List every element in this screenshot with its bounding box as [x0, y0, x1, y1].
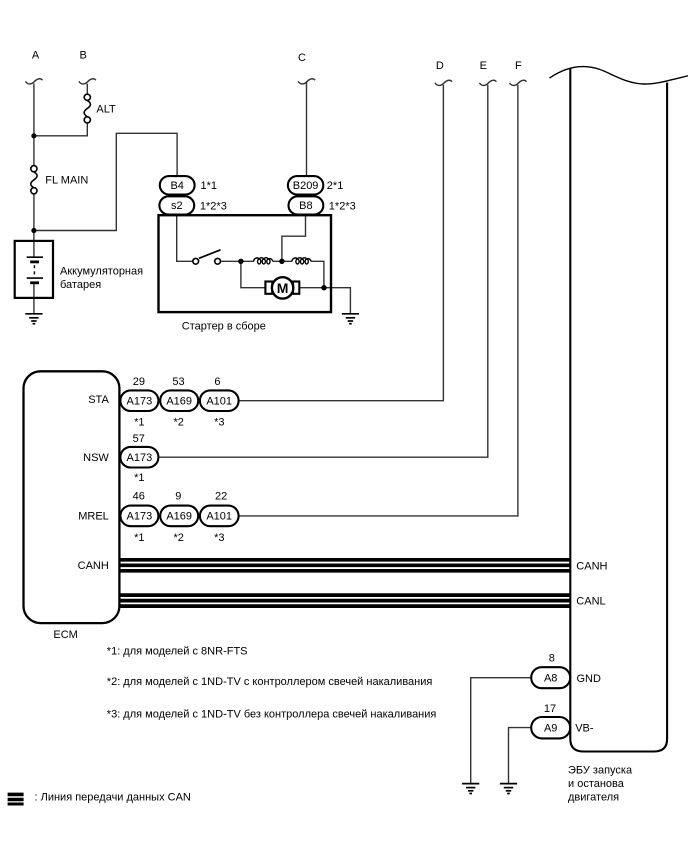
- wire line A below FL MAIN to battery: [33, 194, 35, 257]
- svg-text:*2: *2: [173, 416, 183, 428]
- ground A8: [462, 784, 479, 794]
- svg-text:A9: A9: [544, 723, 557, 735]
- svg-text:M: M: [277, 280, 289, 296]
- CAN bus CANH: [119, 560, 570, 571]
- svg-text:B8: B8: [299, 200, 312, 212]
- svg-text:*1: *1: [134, 472, 144, 484]
- svg-text:B4: B4: [170, 180, 183, 192]
- wire switch to coil1: [221, 260, 254, 262]
- svg-text:двигателя: двигателя: [568, 792, 619, 804]
- svg-text:ALT: ALT: [96, 104, 116, 116]
- junction switch-coil: [238, 259, 243, 264]
- wire line A vertical top: [33, 84, 35, 166]
- svg-text:MREL: MREL: [78, 511, 109, 523]
- break symbol D: [435, 80, 452, 85]
- svg-text:CANL: CANL: [576, 596, 605, 608]
- svg-text:8: 8: [549, 653, 555, 665]
- svg-text:F: F: [515, 60, 522, 72]
- connector A101 (MREL): [200, 506, 239, 527]
- svg-text:A169: A169: [166, 396, 192, 408]
- wire battery to ground: [33, 284, 35, 314]
- svg-text:s2: s2: [171, 200, 183, 212]
- CAN bus CANL: [119, 595, 570, 606]
- svg-text:A: A: [32, 50, 40, 62]
- ECM box: [24, 371, 120, 623]
- connector A8: [531, 667, 570, 688]
- wire battery junction to B4 connector: [34, 133, 177, 230]
- break symbol C: [298, 79, 315, 84]
- svg-text:D: D: [436, 60, 444, 72]
- wire MREL row to line F: [239, 85, 518, 516]
- svg-text:A8: A8: [544, 673, 557, 685]
- svg-text:1*2*3: 1*2*3: [329, 200, 356, 212]
- junction coil node: [279, 259, 284, 264]
- connector A9: [531, 717, 570, 738]
- connector A101 (STA): [200, 390, 239, 411]
- break symbol E: [479, 80, 496, 85]
- fusible link ALT: [84, 94, 90, 123]
- ground A9: [500, 784, 517, 794]
- break symbol A: [26, 79, 43, 84]
- svg-text:STA: STA: [88, 394, 109, 406]
- svg-text:FL MAIN: FL MAIN: [45, 174, 88, 186]
- wire A9 to ground: [509, 728, 532, 784]
- connector B4: [160, 176, 195, 194]
- svg-text:A101: A101: [206, 511, 232, 523]
- svg-text:B: B: [80, 50, 87, 62]
- wire motor right brush to starter ground: [300, 288, 351, 314]
- svg-text:*1: для моделей с 8NR-FTS: *1: для моделей с 8NR-FTS: [107, 645, 248, 657]
- svg-text:*2: *2: [173, 532, 183, 544]
- svg-text:CANH: CANH: [78, 560, 109, 572]
- svg-text:*1: *1: [134, 532, 144, 544]
- svg-text:и останова: и останова: [568, 778, 625, 790]
- ground starter: [342, 314, 359, 324]
- switch contact right: [215, 258, 221, 264]
- connector B209: [288, 176, 323, 194]
- coil L2: [292, 258, 311, 264]
- wire B8 lead: [282, 215, 306, 261]
- svg-text:CANH: CANH: [576, 560, 607, 572]
- motor M1: [272, 277, 293, 298]
- connector B8: [289, 196, 324, 214]
- wire junction down to motor left brush: [241, 261, 266, 287]
- svg-text:: Линия передачи данных CAN: : Линия передачи данных CAN: [35, 792, 191, 804]
- svg-text:*1: *1: [134, 416, 144, 428]
- legend CAN bus icon: [8, 794, 24, 804]
- junction node battery-B4: [31, 228, 36, 233]
- svg-text:C: C: [298, 52, 306, 64]
- wire coil2 to corner down: [311, 261, 324, 287]
- svg-text:46: 46: [133, 491, 145, 503]
- svg-text:ЭБУ запуска: ЭБУ запуска: [568, 764, 633, 776]
- battery box: [15, 241, 53, 298]
- svg-text:53: 53: [172, 376, 184, 388]
- starter assembly box: [159, 215, 332, 312]
- switch blade: [199, 250, 221, 258]
- svg-text:*3: для моделей с 1ND-TV без к: *3: для моделей с 1ND-TV без контроллера…: [107, 708, 437, 720]
- junction motor output: [321, 285, 326, 290]
- wire STA row to line D: [239, 85, 444, 401]
- svg-text:57: 57: [133, 433, 145, 445]
- ECU box outline: [570, 69, 667, 752]
- connector s2: [159, 196, 194, 214]
- break symbol B: [79, 79, 96, 84]
- switch contact left: [193, 258, 199, 264]
- wire ALT to A-B junction: [34, 123, 87, 136]
- svg-text:A173: A173: [127, 452, 153, 464]
- svg-text:A101: A101: [206, 396, 232, 408]
- svg-text:батарея: батарея: [60, 279, 101, 291]
- svg-text:*2: для моделей с 1ND-TV с кон: *2: для моделей с 1ND-TV с контроллером …: [107, 676, 433, 688]
- svg-text:Аккумуляторная: Аккумуляторная: [60, 265, 143, 277]
- svg-text:6: 6: [214, 376, 220, 388]
- svg-text:*3: *3: [214, 416, 224, 428]
- coil L1: [254, 258, 273, 264]
- svg-text:A173: A173: [127, 511, 153, 523]
- wire A8 to ground: [471, 678, 532, 784]
- svg-text:E: E: [480, 60, 487, 72]
- svg-text:VB-: VB-: [575, 723, 594, 735]
- svg-text:2*1: 2*1: [327, 180, 344, 192]
- svg-text:A169: A169: [166, 511, 192, 523]
- fusible link FL MAIN: [31, 166, 37, 194]
- connector A173 (MREL): [120, 506, 158, 527]
- ground battery: [25, 314, 42, 324]
- junction node A-B: [31, 133, 36, 138]
- motor brush left: [265, 282, 272, 294]
- wires group: [34, 82, 532, 783]
- svg-text:22: 22: [215, 491, 227, 503]
- wire s2 lead to switch: [177, 215, 193, 262]
- svg-text:ECM: ECM: [53, 629, 77, 641]
- svg-text:*3: *3: [214, 532, 224, 544]
- battery cell plates: [27, 257, 43, 283]
- svg-text:17: 17: [544, 703, 556, 715]
- connector A169 (MREL): [160, 506, 198, 527]
- svg-text:1*2*3: 1*2*3: [200, 200, 227, 212]
- break symbol F: [510, 80, 527, 85]
- connector A169 (STA): [160, 390, 198, 411]
- svg-text:A173: A173: [127, 396, 153, 408]
- svg-text:B209: B209: [293, 180, 319, 192]
- wire coil1 to coil2: [273, 260, 292, 262]
- wire line C: [306, 82, 308, 176]
- wire NSW row to line E: [158, 85, 487, 457]
- svg-text:1*1: 1*1: [201, 180, 218, 192]
- ECU box wavy top: [550, 67, 688, 84]
- connector A173 (NSW): [120, 447, 158, 468]
- wire line B top to ALT: [86, 84, 88, 95]
- connector A173 (STA): [120, 390, 158, 411]
- svg-text:29: 29: [133, 376, 145, 388]
- svg-text:NSW: NSW: [83, 452, 109, 464]
- svg-text:GND: GND: [577, 673, 602, 685]
- svg-text:9: 9: [175, 491, 181, 503]
- motor brush right: [293, 282, 299, 294]
- svg-text:Стартер в сборе: Стартер в сборе: [182, 320, 266, 332]
